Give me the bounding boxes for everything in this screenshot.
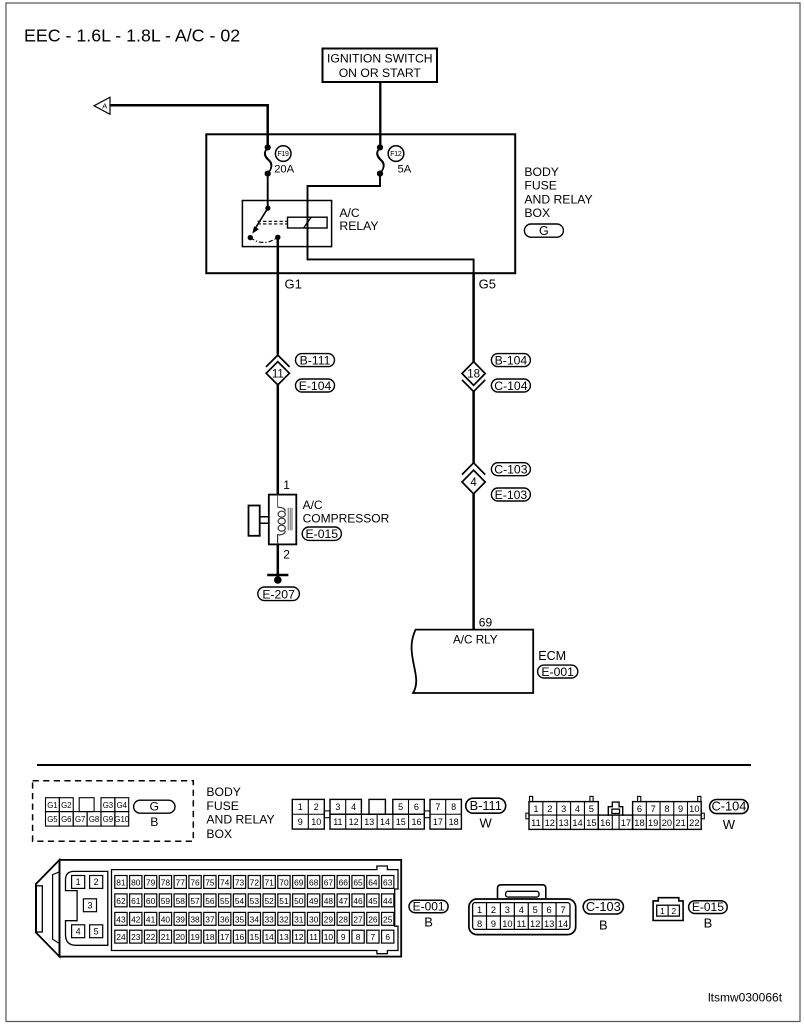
svg-text:G9: G9 xyxy=(103,815,113,824)
wire: F12 to relay coil and out to G5 xyxy=(308,174,474,273)
svg-text:C-103: C-103 xyxy=(494,463,527,477)
svg-text:9: 9 xyxy=(341,932,346,942)
svg-text:7: 7 xyxy=(651,804,656,814)
fuse F19 20A xyxy=(265,144,295,176)
svg-text:49: 49 xyxy=(309,896,319,906)
svg-text:13: 13 xyxy=(558,818,568,828)
label: body fuse and relay box xyxy=(524,165,592,220)
connector view G (body fuse and relay box) xyxy=(33,781,194,842)
svg-text:35: 35 xyxy=(235,914,245,924)
connector oval C-104 (view) xyxy=(710,799,749,832)
svg-text:B-104: B-104 xyxy=(495,353,528,367)
svg-text:G7: G7 xyxy=(75,815,85,824)
ECM box xyxy=(412,630,534,693)
svg-text:AND RELAY: AND RELAY xyxy=(206,813,274,827)
wire: compressor pin 2 to ground xyxy=(277,544,280,579)
connector oval B-111 (view) xyxy=(466,798,506,831)
ignition switch source box xyxy=(323,49,438,83)
svg-text:34: 34 xyxy=(250,914,260,924)
svg-text:2: 2 xyxy=(314,802,319,812)
svg-text:58: 58 xyxy=(176,896,186,906)
svg-text:3: 3 xyxy=(87,901,92,911)
relay switch blade xyxy=(256,208,268,228)
svg-text:16: 16 xyxy=(411,817,421,827)
inline connector 4 (C-103 / E-103) xyxy=(462,463,485,494)
svg-text:17: 17 xyxy=(433,817,443,827)
svg-text:71: 71 xyxy=(264,877,274,887)
connector view C-103 xyxy=(469,885,576,935)
svg-text:20: 20 xyxy=(662,818,672,828)
svg-text:G10: G10 xyxy=(114,815,129,824)
connector oval G xyxy=(524,224,563,238)
svg-text:ECM: ECM xyxy=(538,649,566,663)
svg-text:72: 72 xyxy=(250,877,260,887)
svg-text:11: 11 xyxy=(531,818,541,828)
svg-text:BODY: BODY xyxy=(524,165,559,179)
svg-text:51: 51 xyxy=(279,896,289,906)
svg-text:1: 1 xyxy=(533,804,538,814)
svg-text:2: 2 xyxy=(671,906,676,916)
svg-text:11: 11 xyxy=(309,932,318,942)
svg-text:40: 40 xyxy=(161,914,171,924)
svg-text:1: 1 xyxy=(660,906,665,916)
svg-text:39: 39 xyxy=(176,914,186,924)
svg-text:14: 14 xyxy=(572,818,582,828)
connector oval B-111 xyxy=(296,353,335,367)
svg-text:74: 74 xyxy=(220,877,230,887)
svg-text:28: 28 xyxy=(339,914,349,924)
svg-text:38: 38 xyxy=(190,914,200,924)
svg-text:B-111: B-111 xyxy=(300,353,331,367)
svg-text:60: 60 xyxy=(146,896,156,906)
svg-text:ltsmw030066t: ltsmw030066t xyxy=(708,991,783,1005)
relay throw arc xyxy=(250,237,277,242)
svg-text:8: 8 xyxy=(664,804,669,814)
wire: G5 into connector 18 xyxy=(472,273,475,362)
svg-text:43: 43 xyxy=(116,914,126,924)
svg-text:14: 14 xyxy=(264,932,274,942)
svg-text:81: 81 xyxy=(116,877,126,887)
svg-text:33: 33 xyxy=(264,914,274,924)
svg-text:8: 8 xyxy=(477,919,482,929)
svg-text:13: 13 xyxy=(544,919,554,929)
label: A/C compressor xyxy=(303,498,390,526)
svg-text:10: 10 xyxy=(311,817,321,827)
svg-text:BOX: BOX xyxy=(524,206,550,220)
svg-text:B: B xyxy=(599,918,608,933)
relay moving contact xyxy=(248,235,253,240)
svg-text:A/C: A/C xyxy=(303,498,323,512)
svg-text:G4: G4 xyxy=(117,801,128,810)
svg-text:12: 12 xyxy=(545,818,555,828)
svg-text:56: 56 xyxy=(205,896,215,906)
svg-text:66: 66 xyxy=(339,877,349,887)
svg-text:B: B xyxy=(424,915,433,930)
connector oval E-001 xyxy=(538,665,578,679)
svg-text:RELAY: RELAY xyxy=(339,219,378,233)
svg-text:B: B xyxy=(150,815,158,829)
svg-text:41: 41 xyxy=(146,914,156,924)
svg-text:2: 2 xyxy=(283,548,290,562)
svg-text:29: 29 xyxy=(324,914,334,924)
svg-text:G1: G1 xyxy=(285,277,302,292)
connector oval B-104 xyxy=(491,353,530,367)
svg-text:62: 62 xyxy=(116,896,126,906)
svg-text:1: 1 xyxy=(283,478,290,492)
fuse F12 5A xyxy=(377,144,412,176)
connector view E-001 (ECM) xyxy=(36,860,401,957)
svg-text:W: W xyxy=(723,817,736,832)
svg-text:G5: G5 xyxy=(479,277,496,292)
svg-text:12: 12 xyxy=(294,932,304,942)
svg-text:53: 53 xyxy=(250,896,260,906)
label: body fuse and relay box (view) xyxy=(206,785,274,841)
svg-text:73: 73 xyxy=(235,877,245,887)
svg-text:14: 14 xyxy=(380,817,390,827)
svg-text:AND RELAY: AND RELAY xyxy=(524,192,592,206)
svg-text:50: 50 xyxy=(294,896,304,906)
svg-text:12: 12 xyxy=(530,919,540,929)
svg-text:C-104: C-104 xyxy=(494,379,527,393)
svg-text:A/C RLY: A/C RLY xyxy=(453,633,498,646)
svg-text:45: 45 xyxy=(368,896,378,906)
svg-text:17: 17 xyxy=(621,818,631,828)
svg-text:9: 9 xyxy=(298,817,303,827)
svg-text:44: 44 xyxy=(383,896,393,906)
svg-text:B-111: B-111 xyxy=(470,798,502,813)
inline connector 18 (B-104 / C-104) xyxy=(462,362,485,392)
svg-text:15: 15 xyxy=(586,818,596,828)
svg-text:37: 37 xyxy=(205,914,215,924)
svg-text:75: 75 xyxy=(205,877,215,887)
svg-text:8: 8 xyxy=(356,932,361,942)
svg-text:BOX: BOX xyxy=(206,827,232,841)
ground E-207 xyxy=(267,575,288,584)
svg-text:19: 19 xyxy=(648,818,658,828)
svg-text:31: 31 xyxy=(294,914,304,924)
svg-text:15: 15 xyxy=(396,817,406,827)
svg-text:54: 54 xyxy=(235,896,245,906)
svg-text:6: 6 xyxy=(637,804,642,814)
svg-text:12: 12 xyxy=(349,817,359,827)
svg-text:23: 23 xyxy=(131,932,141,942)
svg-text:11: 11 xyxy=(333,817,342,827)
svg-text:27: 27 xyxy=(353,914,363,924)
svg-text:G8: G8 xyxy=(89,815,99,824)
label: A/C relay xyxy=(339,206,378,233)
svg-text:E-001: E-001 xyxy=(541,665,574,679)
svg-text:22: 22 xyxy=(146,932,156,942)
svg-text:10: 10 xyxy=(324,932,334,942)
svg-text:8: 8 xyxy=(451,802,456,812)
body fuse and relay box xyxy=(206,134,515,273)
svg-text:FUSE: FUSE xyxy=(206,799,239,813)
svg-text:G: G xyxy=(539,224,549,238)
svg-text:10: 10 xyxy=(502,919,512,929)
svg-text:F19: F19 xyxy=(277,151,289,158)
svg-text:2: 2 xyxy=(547,804,552,814)
svg-text:21: 21 xyxy=(161,932,171,942)
svg-text:E-207: E-207 xyxy=(262,587,295,601)
svg-text:2: 2 xyxy=(491,905,496,915)
svg-text:14: 14 xyxy=(558,919,568,929)
svg-text:70: 70 xyxy=(279,877,289,887)
svg-text:13: 13 xyxy=(279,932,289,942)
svg-text:E-015: E-015 xyxy=(306,527,339,541)
svg-text:G: G xyxy=(150,800,160,814)
svg-text:6: 6 xyxy=(385,932,390,942)
svg-text:G6: G6 xyxy=(61,815,71,824)
svg-text:G1: G1 xyxy=(47,801,57,810)
svg-text:4: 4 xyxy=(519,905,524,915)
svg-text:5: 5 xyxy=(94,927,99,937)
section divider xyxy=(37,764,751,766)
svg-text:6: 6 xyxy=(547,905,552,915)
connector oval G (view) xyxy=(134,800,175,829)
svg-text:2: 2 xyxy=(94,877,99,887)
svg-text:7: 7 xyxy=(560,905,565,915)
svg-text:21: 21 xyxy=(675,818,685,828)
svg-text:20: 20 xyxy=(176,932,186,942)
svg-text:1: 1 xyxy=(477,905,482,915)
svg-text:69: 69 xyxy=(479,616,493,630)
connector view C-104 xyxy=(526,796,704,829)
relay output contact xyxy=(275,235,280,240)
svg-text:FUSE: FUSE xyxy=(524,179,557,193)
svg-text:COMPRESSOR: COMPRESSOR xyxy=(303,512,390,526)
compressor clutch plate xyxy=(249,506,260,536)
svg-text:1: 1 xyxy=(298,802,303,812)
svg-text:18: 18 xyxy=(634,818,644,828)
svg-text:20A: 20A xyxy=(274,163,294,175)
svg-text:E-015: E-015 xyxy=(692,900,724,914)
svg-text:15: 15 xyxy=(250,932,260,942)
wire: relay output to connector 11 (net G1) xyxy=(277,237,280,354)
svg-text:68: 68 xyxy=(309,877,319,887)
wire: F19 to relay switch contact xyxy=(267,174,269,208)
svg-text:22: 22 xyxy=(689,818,699,828)
svg-text:32: 32 xyxy=(279,914,289,924)
connector oval C-103 (view) xyxy=(583,899,623,933)
svg-text:52: 52 xyxy=(264,896,274,906)
svg-text:9: 9 xyxy=(678,804,683,814)
svg-text:11: 11 xyxy=(272,368,284,380)
svg-text:C-104: C-104 xyxy=(711,799,746,814)
svg-text:16: 16 xyxy=(600,818,610,828)
svg-text:65: 65 xyxy=(353,877,363,887)
svg-text:G5: G5 xyxy=(47,815,58,824)
relay K: A/C relay xyxy=(242,201,331,247)
svg-text:F12: F12 xyxy=(390,151,402,158)
svg-text:18: 18 xyxy=(205,932,215,942)
svg-text:55: 55 xyxy=(220,896,230,906)
svg-text:3: 3 xyxy=(561,804,566,814)
svg-text:69: 69 xyxy=(294,877,304,887)
connector oval C-104 xyxy=(491,379,530,393)
svg-text:10: 10 xyxy=(689,804,699,814)
svg-text:61: 61 xyxy=(131,896,141,906)
svg-text:80: 80 xyxy=(131,877,141,887)
connector oval E-103 xyxy=(491,488,530,502)
svg-text:63: 63 xyxy=(383,877,393,887)
svg-text:64: 64 xyxy=(368,877,378,887)
svg-text:G3: G3 xyxy=(103,801,113,810)
svg-text:BODY: BODY xyxy=(206,785,241,799)
svg-text:46: 46 xyxy=(353,896,363,906)
svg-text:13: 13 xyxy=(364,817,374,827)
svg-text:25: 25 xyxy=(383,914,393,924)
compressor M: A/C compressor xyxy=(249,495,297,545)
svg-text:7: 7 xyxy=(371,932,376,942)
svg-text:18: 18 xyxy=(467,369,480,381)
connector view B-111 xyxy=(292,799,461,829)
svg-text:6: 6 xyxy=(414,802,419,812)
svg-text:77: 77 xyxy=(176,877,186,887)
svg-text:5: 5 xyxy=(589,804,594,814)
svg-text:3: 3 xyxy=(335,802,340,812)
svg-text:5A: 5A xyxy=(398,163,412,175)
svg-text:4: 4 xyxy=(470,477,477,489)
svg-text:11: 11 xyxy=(516,919,526,929)
svg-text:36: 36 xyxy=(220,914,230,924)
connector oval E-207 xyxy=(258,587,300,601)
connector oval C-103 xyxy=(491,463,530,477)
svg-text:79: 79 xyxy=(146,877,156,887)
svg-text:16: 16 xyxy=(235,932,245,942)
connector oval E-001 (view) xyxy=(409,900,448,930)
relay actuation dashed link xyxy=(258,220,288,222)
svg-text:78: 78 xyxy=(161,877,171,887)
svg-text:A: A xyxy=(102,101,107,110)
svg-text:9: 9 xyxy=(491,919,496,929)
svg-text:48: 48 xyxy=(324,896,334,906)
svg-text:4: 4 xyxy=(76,927,81,937)
svg-text:4: 4 xyxy=(351,802,356,812)
svg-text:59: 59 xyxy=(161,896,171,906)
inline connector 11 (B-111 / E-104) xyxy=(266,355,290,385)
svg-text:7: 7 xyxy=(435,802,440,812)
svg-text:19: 19 xyxy=(190,932,200,942)
svg-text:5: 5 xyxy=(533,905,538,915)
svg-text:42: 42 xyxy=(131,914,141,924)
relay switch fixed contact xyxy=(265,206,270,211)
svg-text:E-001: E-001 xyxy=(413,900,445,914)
svg-text:E-104: E-104 xyxy=(299,379,332,393)
svg-text:30: 30 xyxy=(309,914,319,924)
connector view E-015 xyxy=(653,898,683,921)
wire: connector 11 to compressor pin 1 xyxy=(277,385,280,495)
svg-text:24: 24 xyxy=(116,932,126,942)
wire: connector 4 to ECM pin 69 xyxy=(472,494,475,630)
svg-text:57: 57 xyxy=(190,896,200,906)
svg-text:C-103: C-103 xyxy=(586,899,621,914)
svg-text:IGNITION SWITCH: IGNITION SWITCH xyxy=(327,52,433,66)
svg-text:G2: G2 xyxy=(61,801,71,810)
svg-text:EEC - 1.6L - 1.8L - A/C - 02: EEC - 1.6L - 1.8L - A/C - 02 xyxy=(24,25,240,45)
relay coil xyxy=(288,217,328,228)
svg-text:E-103: E-103 xyxy=(495,488,528,502)
svg-text:47: 47 xyxy=(339,896,349,906)
svg-text:76: 76 xyxy=(190,877,200,887)
svg-text:1: 1 xyxy=(76,877,81,887)
svg-text:17: 17 xyxy=(220,932,230,942)
svg-text:26: 26 xyxy=(368,914,378,924)
connector oval E-015 xyxy=(302,527,341,541)
svg-text:B: B xyxy=(704,916,713,931)
svg-text:5: 5 xyxy=(398,802,403,812)
connector oval E-104 xyxy=(296,379,335,393)
svg-text:W: W xyxy=(480,815,493,830)
wire: node A to fuse F19 xyxy=(110,105,268,147)
svg-text:67: 67 xyxy=(324,877,334,887)
wire: ignition switch to fuse F12 xyxy=(379,82,381,147)
svg-text:18: 18 xyxy=(449,817,459,827)
connector oval E-015 (view) xyxy=(689,900,728,931)
svg-text:4: 4 xyxy=(575,804,580,814)
node A arrow xyxy=(94,97,110,114)
svg-text:3: 3 xyxy=(505,905,510,915)
svg-text:ON OR START: ON OR START xyxy=(339,66,422,80)
wire: connector 18 to connector 4 xyxy=(472,392,475,464)
